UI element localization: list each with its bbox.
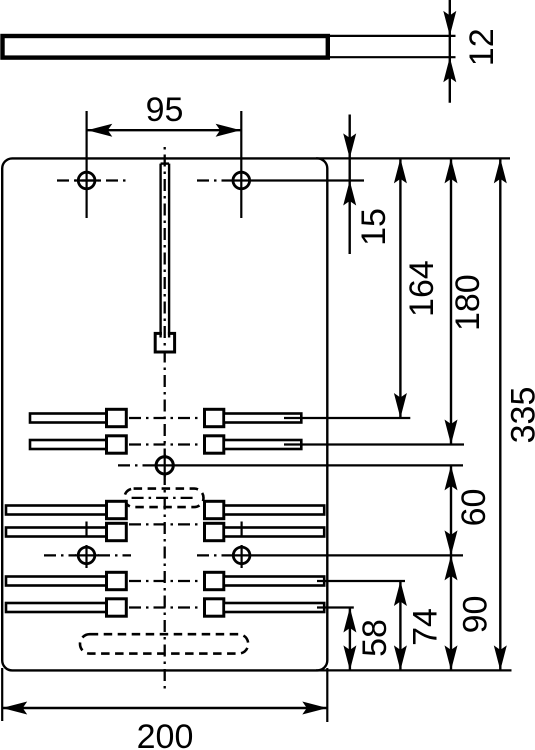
dimension 58 upper arrow [343,608,356,633]
svg-text:180: 180 [449,274,487,331]
terminal row 1 left bar [30,414,107,423]
terminal row 2 extension line [284,443,464,445]
terminal row 6 left bar [6,603,107,612]
dimension 90 line [450,555,452,670]
slot left wall [159,164,161,338]
dimension 180 upper arrow [445,158,458,183]
terminal row 6 left box [107,599,127,616]
terminal row 5 right box [205,572,224,589]
dimension 95 right arrow [216,124,241,137]
dimension 200 line [2,707,327,709]
terminal row 6 extension line [317,606,354,608]
slot right wall [168,164,170,338]
center hole [156,457,173,474]
terminal row 4 right box [205,523,224,540]
terminal row 5 left box [107,572,127,589]
terminal row 5 extension line [317,580,405,582]
mounting hole top right [233,172,250,189]
small hole left vertical tick [85,522,87,538]
dimension 164 upper arrow [394,158,407,183]
side view bottom extension line [330,56,456,58]
bottom left extension line [1,668,3,721]
svg-text:335: 335 [504,387,535,444]
dimension 180 lower arrow [445,420,458,445]
svg-text:74: 74 [407,608,445,646]
small hole right vertical tick [241,522,243,538]
dimension 200 right arrow [302,702,327,715]
dimension 95 left extension line [85,111,87,218]
small hole right [233,547,250,564]
terminal row 2 left box [107,436,127,453]
mounting hole top left [78,172,95,189]
dimension 58 lower arrow [343,645,356,670]
svg-text:95: 95 [146,91,184,129]
svg-text:12: 12 [463,28,501,66]
terminal row 2 right box [205,436,224,453]
dimension 180 line [450,158,452,444]
dimension 200 left arrow [2,702,27,715]
bottom right extension line [326,668,328,722]
small hole left centerline left [44,554,76,556]
dimension 60 lower arrow [445,530,458,555]
dimension 335 line [499,158,501,670]
dimension 74 line [399,581,401,670]
terminal row 2 left bar [30,440,107,449]
dimension 58 line [349,608,351,671]
dimension 60 upper arrow [445,465,458,490]
svg-text:15: 15 [355,208,393,246]
mounting hole top right centerline [197,179,230,181]
terminal row 5 centerline [129,580,202,582]
bottom edge extension line [316,669,512,671]
terminal row 4 left box [107,523,127,540]
side view top extension line [330,35,456,37]
relief cutout centerline [132,497,197,499]
small hole right centerline [197,554,230,556]
terminal row 2 right bar [224,440,301,449]
mounting hole top left centerline [57,179,130,181]
dimension 90 lower arrow [445,645,458,670]
center hole centerline left [118,464,153,466]
terminal row 1 left box [107,409,127,426]
terminal row 1 extension line [284,417,410,419]
top edge extension line [316,157,510,159]
dimension 15 leader line [349,115,351,255]
terminal row 6 centerline [129,606,202,608]
side view plate body [3,36,328,58]
terminal row 3 left bar [6,506,107,515]
relief cutout dashed stadium [124,489,203,508]
dimension 164 lower arrow [394,393,407,418]
small hole left centerline right [98,554,131,556]
bottom cutout dashed stadium [80,634,248,653]
mounting hole top left crosshair [75,179,99,181]
terminal row 3 right bar [224,506,324,515]
terminal row 3 right box [205,501,224,518]
dimension 95 right extension line [240,111,242,218]
small hole left vertical crosshair [85,545,87,568]
slot top cap [161,162,170,164]
dimension 12 upper arrow [443,11,456,36]
small hole left [78,547,95,564]
small hole left horizontal crosshair [75,554,99,556]
small hole right extension line [230,554,463,556]
terminal row 4 right bar [224,528,324,537]
dimension 60 line [450,465,452,555]
svg-text:58: 58 [356,619,394,657]
dimension 90 upper arrow [445,555,458,580]
center hole vertical crosshair [164,454,166,477]
svg-text:60: 60 [455,489,493,527]
dimension 15 upper arrow [343,133,356,158]
dimension 95 line [87,129,241,131]
svg-text:164: 164 [403,260,441,317]
dimension 15 lower arrow [343,181,356,206]
terminal row 5 left bar [6,577,107,586]
terminal row 1 right bar [224,414,301,423]
terminal row 4 centerline [129,523,202,525]
terminal row 5 right bar [224,577,324,586]
slot end box [155,333,174,352]
terminal row 3 left box [107,501,127,518]
dimension 335 upper arrow [494,158,507,183]
svg-text:200: 200 [137,718,194,750]
dimension 74 upper arrow [394,581,407,606]
svg-text:90: 90 [457,596,495,634]
dimension 164 line [399,158,401,418]
terminal row 2 centerline [129,443,202,445]
terminal row 1 centerline [129,417,202,419]
dimension 335 lower arrow [494,645,507,670]
small hole right vertical crosshair [241,545,243,568]
center hole extension line right [153,464,463,466]
terminal row 6 right box [205,599,224,616]
terminal row 6 right bar [224,603,324,612]
dimension 74 lower arrow [394,645,407,670]
slot interior [162,165,168,337]
dimension 95 left arrow [87,124,112,137]
vertical centerline [164,147,166,689]
terminal row 1 right box [205,409,224,426]
dimension 12 lower arrow [443,57,456,82]
terminal row 4 left bar [6,528,107,537]
mounting hole top right crosshair extension [230,179,364,181]
plate outline front view [2,158,327,670]
dimension 12 leader line [449,0,451,103]
